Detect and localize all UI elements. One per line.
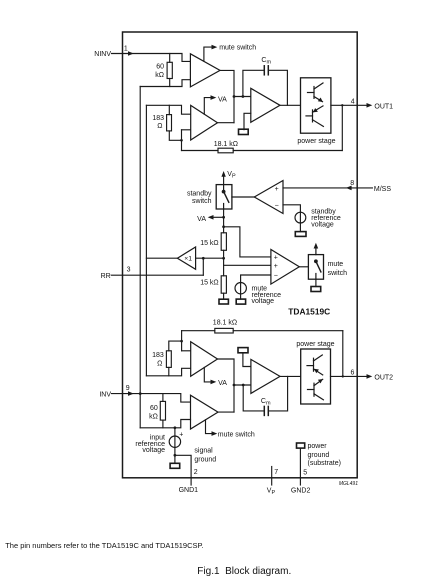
svg-text:GND2: GND2 (291, 487, 311, 494)
resistor 18.1 kOhm (channel 1 feedback) (182, 104, 344, 153)
svg-text:TDA1519C: TDA1519C (288, 306, 330, 316)
svg-text:VA: VA (197, 216, 206, 223)
wire amp3 output (280, 104, 301, 106)
op-amp U3 (x1 buffer) (146, 247, 225, 269)
svg-text:power stage: power stage (297, 138, 335, 145)
transistor Q3 (PNP upper, channel 2) (307, 355, 323, 375)
power stage box (channel 1) (301, 78, 331, 133)
svg-text:6: 6 (351, 369, 355, 376)
resistor 183 Ohm (channel 1) (167, 105, 182, 140)
svg-text:60: 60 (156, 64, 164, 71)
wire amp1 lower input (140, 80, 190, 87)
svg-text:4: 4 (351, 99, 355, 106)
resistor 15 kOhm (lower) (221, 276, 226, 299)
svg-text:183: 183 (152, 115, 164, 122)
svg-text:GND1: GND1 (179, 487, 199, 494)
wire summing node to amp3 (233, 95, 251, 98)
svg-text:+: + (275, 186, 279, 193)
wire amp6 output (280, 375, 301, 377)
node NINV pin 1 input wire (112, 51, 191, 61)
svg-text:switch: switch (328, 270, 348, 277)
svg-text:Ω: Ω (157, 123, 162, 130)
svg-text:MGL491: MGL491 (339, 481, 358, 487)
wire amp2 upper input (146, 105, 190, 114)
mute switch arrow (channel 2) (206, 420, 218, 436)
bias tap amp3 lower input (239, 113, 251, 134)
svg-text:signal: signal (194, 448, 213, 455)
svg-text:INV: INV (99, 391, 111, 398)
svg-text:ground: ground (194, 457, 216, 464)
wire standby switch to VA rail (223, 209, 225, 233)
svg-text:8: 8 (350, 180, 354, 187)
svg-text:M/SS: M/SS (374, 186, 391, 193)
wire trunk A (INV rail) (139, 87, 141, 428)
standby switch S1 (216, 185, 232, 209)
svg-text:7: 7 (274, 469, 278, 476)
resistor 60 kOhm (channel 2) (160, 394, 165, 428)
svg-text:power stage: power stage (296, 341, 334, 348)
wire amp4 output (218, 359, 235, 412)
svg-text:mute switch: mute switch (219, 45, 256, 52)
node VA arrow (channel 1) (204, 95, 216, 114)
svg-text:−: − (274, 273, 278, 280)
node M/SS pin 8 wire (283, 186, 372, 191)
resistor 15 kOhm (upper) (221, 233, 226, 276)
svg-text:voltage: voltage (252, 298, 275, 305)
svg-text:+: + (274, 254, 278, 261)
svg-text:The pin numbers refer to the T: The pin numbers refer to the TDA1519C an… (5, 541, 203, 550)
svg-text:voltage: voltage (142, 447, 165, 454)
transistor Q2 (PNP lower, channel 1) (306, 106, 323, 127)
op-amp U4 (mute comparator) (271, 250, 309, 285)
svg-text:9: 9 (126, 385, 130, 392)
wire amp2 output (218, 122, 235, 124)
node signal ground / pin 2 wire (174, 454, 192, 485)
op-amp U2 (standby comparator) (232, 181, 283, 214)
svg-text:power: power (308, 443, 328, 450)
svg-text:15 kΩ: 15 kΩ (200, 280, 218, 287)
resistor 18.1 kOhm (channel 2 feedback) (180, 328, 344, 377)
svg-text:Fig.1 Block diagram.: Fig.1 Block diagram. (197, 566, 291, 577)
wire summing node to amp6 (233, 384, 251, 387)
svg-text:183: 183 (152, 352, 164, 359)
signal ground symbol (mute switch) (311, 279, 321, 291)
mute switch arrow (channel 1) (204, 45, 217, 61)
transistor Q1 (NPN upper, channel 1) (308, 83, 324, 102)
bias tap amp6 upper input (238, 348, 251, 367)
svg-text:18.1 kΩ: 18.1 kΩ (213, 320, 237, 327)
resistor 60 kOhm (channel 1) (167, 54, 172, 87)
svg-text:1: 1 (124, 46, 128, 53)
capacitor Cm (channel 2) (243, 376, 287, 415)
svg-text:mute: mute (328, 261, 344, 268)
svg-text:standby: standby (187, 190, 212, 197)
wire amp2 lower input / feedback tap (180, 130, 191, 151)
wire to mute comparator middle input (224, 264, 271, 266)
power ground symbol / pin 5 wire (297, 443, 305, 485)
svg-text:(substrate): (substrate) (308, 460, 341, 467)
outer block boundary (123, 32, 358, 478)
op-amp A2 (channel 1 input stage, VA) (191, 105, 218, 140)
svg-text:60: 60 (150, 405, 158, 412)
svg-text:18.1 kΩ: 18.1 kΩ (214, 141, 238, 148)
svg-text:mute switch: mute switch (218, 432, 255, 439)
standby reference voltage source V1 (283, 205, 306, 237)
svg-text:−: − (275, 202, 279, 209)
capacitor Cm (channel 1) (243, 66, 288, 106)
svg-text:switch: switch (192, 198, 212, 205)
node OUT1 pin 4 wire (331, 103, 372, 108)
svg-text:5: 5 (303, 469, 307, 476)
svg-text:VP: VP (227, 171, 236, 180)
wire amp4 lower input from trunk B (146, 368, 190, 376)
op-amp A4 (channel 2 input stage, VA) (191, 342, 218, 377)
node VP pin 7 stub (271, 467, 273, 486)
resistor 183 Ohm (channel 2) (166, 341, 181, 376)
svg-text:Cm: Cm (261, 398, 271, 407)
input reference voltage source V3 (169, 426, 180, 468)
op-amp A6 (channel 2 driver) (251, 359, 280, 393)
node RR pin 3 wire (111, 258, 203, 275)
transistor Q4 (NPN lower, channel 2) (308, 379, 324, 400)
svg-text:Cm: Cm (261, 57, 271, 65)
wire to mute comparator top input (222, 225, 271, 256)
node VA arrow (channel 2) (204, 368, 216, 385)
power stage box (channel 2) (301, 349, 331, 404)
svg-text:×1: ×1 (184, 255, 192, 262)
svg-text:OUT2: OUT2 (374, 374, 393, 381)
wire amp5 lower input (140, 420, 190, 428)
svg-text:3: 3 (127, 266, 131, 273)
svg-text:Ω: Ω (157, 360, 162, 367)
mute switch S2 (308, 243, 323, 279)
mute reference voltage source V2 (235, 275, 271, 304)
op-amp A5 (channel 2 input stage, mute) (191, 395, 219, 429)
svg-text:+: + (274, 263, 278, 270)
node VP arrow (standby) (221, 171, 225, 185)
wire amp4 upper input (182, 350, 191, 352)
svg-text:15 kΩ: 15 kΩ (200, 240, 218, 247)
node INV pin 9 input wire (112, 391, 191, 402)
svg-text:kΩ: kΩ (149, 414, 158, 421)
svg-text:NINV: NINV (94, 51, 111, 58)
svg-text:VA: VA (218, 97, 227, 104)
svg-text:+: + (179, 432, 183, 439)
wire trunk B (VA rail) (145, 105, 147, 376)
svg-text:RR: RR (101, 273, 111, 280)
op-amp A1 (channel 1 input stage, mute) (190, 54, 220, 87)
node OUT2 pin 6 wire (331, 374, 373, 379)
svg-text:OUT1: OUT1 (374, 103, 393, 110)
op-amp A3 (channel 1 driver) (251, 88, 280, 122)
svg-text:VA: VA (218, 380, 227, 387)
wire amp5 output (218, 411, 234, 413)
wire amp1 output (220, 70, 234, 122)
svg-text:kΩ: kΩ (155, 72, 164, 79)
svg-text:2: 2 (194, 469, 198, 476)
node VA arrow (left) (208, 215, 225, 220)
svg-text:voltage: voltage (311, 221, 334, 228)
svg-text:VP: VP (267, 488, 276, 497)
signal ground symbol (15k chain) (219, 299, 228, 304)
svg-text:ground: ground (308, 452, 330, 459)
